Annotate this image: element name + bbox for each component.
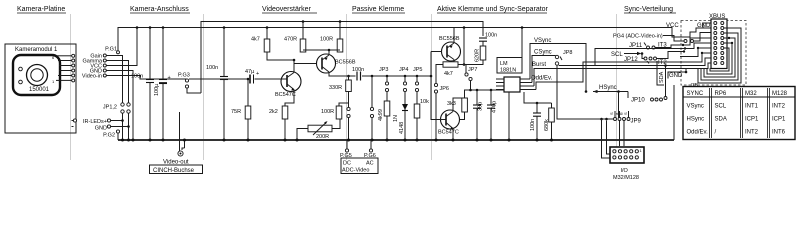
svg-text:100µ: 100µ — [154, 83, 160, 96]
svg-text:150001: 150001 — [29, 87, 50, 93]
svg-text:Burst: Burst — [532, 62, 546, 68]
svg-text:3k3: 3k3 — [447, 101, 456, 107]
svg-text:100n: 100n — [352, 67, 364, 73]
svg-text:+: + — [168, 75, 171, 81]
svg-text:GND: GND — [95, 126, 107, 132]
svg-text:SDA: SDA — [715, 117, 727, 123]
svg-text:BC556B: BC556B — [439, 36, 460, 42]
svg-text:620R: 620R — [475, 49, 481, 62]
svg-text:Aktive Klemme und Sync-Separat: Aktive Klemme und Sync-Separator — [437, 6, 549, 13]
svg-text:680k: 680k — [544, 119, 550, 131]
svg-text:IR-LEDs+: IR-LEDs+ — [83, 119, 107, 125]
svg-text:AC: AC — [366, 161, 374, 167]
svg-text:100n: 100n — [206, 65, 218, 71]
svg-text:BC547C: BC547C — [275, 92, 296, 98]
svg-text:JP8: JP8 — [563, 50, 572, 56]
svg-text:DC: DC — [343, 161, 351, 167]
svg-text:2k2: 2k2 — [269, 109, 278, 115]
svg-text:INT6: INT6 — [772, 130, 786, 136]
svg-text:I/O: I/O — [621, 168, 629, 174]
svg-text:VSync: VSync — [687, 104, 704, 110]
svg-text:INT2: INT2 — [772, 104, 786, 110]
svg-text:VCC: VCC — [666, 23, 679, 29]
svg-text:JP6: JP6 — [440, 86, 449, 92]
svg-text:SYNC: SYNC — [687, 91, 704, 97]
svg-text:Sync-Verteilung: Sync-Verteilung — [624, 6, 673, 13]
svg-text:HSync: HSync — [687, 117, 705, 123]
svg-text:JP5: JP5 — [413, 67, 422, 73]
svg-text:M128: M128 — [772, 91, 788, 97]
svg-text:SCL: SCL — [611, 52, 623, 58]
svg-text:100n: 100n — [131, 74, 143, 80]
svg-text:1881N: 1881N — [500, 68, 516, 74]
svg-text:BC556B: BC556B — [335, 60, 356, 66]
svg-text:ICP1: ICP1 — [772, 117, 786, 123]
svg-text:10k: 10k — [420, 99, 429, 105]
svg-text:4k7: 4k7 — [444, 71, 453, 77]
svg-text:39p: 39p — [478, 102, 484, 111]
svg-text:P.G1: P.G1 — [105, 47, 117, 53]
svg-text:100R: 100R — [321, 109, 334, 115]
svg-text:Kameramodul 1: Kameramodul 1 — [15, 47, 58, 53]
svg-text:Odd/Ev.: Odd/Ev. — [687, 130, 709, 136]
svg-text:CINCH-Buchse: CINCH-Buchse — [153, 168, 195, 174]
svg-text:JP3: JP3 — [379, 67, 388, 73]
svg-text:100n: 100n — [485, 33, 497, 39]
svg-text:100R: 100R — [320, 37, 333, 43]
svg-text:200R: 200R — [316, 134, 329, 140]
svg-text:S: S — [623, 112, 628, 115]
svg-text:JP1,2: JP1,2 — [103, 105, 117, 111]
svg-text:1N: 1N — [393, 115, 399, 122]
svg-text:INT2: INT2 — [745, 130, 759, 136]
svg-text:ICP1: ICP1 — [745, 117, 759, 123]
svg-text:Kamera-Anschluss: Kamera-Anschluss — [130, 6, 189, 13]
svg-text:INT1: INT1 — [745, 104, 759, 110]
svg-text:330R: 330R — [329, 85, 342, 91]
svg-text:LM: LM — [500, 61, 508, 67]
svg-text:Passive Klemme: Passive Klemme — [352, 6, 404, 13]
svg-text:47µ: 47µ — [245, 69, 255, 75]
svg-text:470R: 470R — [284, 37, 297, 43]
svg-text:Kamera-Platine: Kamera-Platine — [17, 6, 65, 13]
svg-text:BC547C: BC547C — [438, 130, 459, 136]
svg-text:4k99: 4k99 — [378, 109, 384, 121]
svg-text:JP7: JP7 — [468, 67, 477, 73]
svg-text:CSync: CSync — [534, 50, 552, 56]
svg-text:100n: 100n — [530, 119, 536, 131]
svg-text:470p: 470p — [492, 101, 498, 113]
svg-text:Videoverstärker: Videoverstärker — [262, 6, 312, 13]
svg-text:SDA: SDA — [659, 71, 665, 83]
svg-text:JP10: JP10 — [631, 98, 645, 104]
svg-text:JP9: JP9 — [631, 119, 642, 125]
svg-text:HSync: HSync — [599, 85, 617, 91]
svg-text:Video-in: Video-in — [82, 74, 102, 80]
svg-text:ADC-Video: ADC-Video — [342, 168, 369, 174]
svg-text:4k7: 4k7 — [251, 37, 260, 43]
svg-text:SCL: SCL — [715, 104, 727, 110]
svg-text:M32: M32 — [745, 91, 757, 97]
svg-text:PG4 (ADC-Video-in): PG4 (ADC-Video-in) — [613, 34, 663, 40]
svg-text:75R: 75R — [231, 109, 241, 115]
svg-text:M32/M128: M32/M128 — [613, 175, 639, 181]
svg-text:P.G3: P.G3 — [178, 73, 190, 79]
svg-text:JP12: JP12 — [624, 57, 638, 63]
svg-text:4148: 4148 — [399, 122, 405, 134]
svg-text:RP6: RP6 — [715, 91, 727, 97]
svg-text:+: + — [256, 71, 259, 77]
svg-text:JP4: JP4 — [399, 67, 408, 73]
svg-text:P.G2: P.G2 — [103, 133, 115, 139]
